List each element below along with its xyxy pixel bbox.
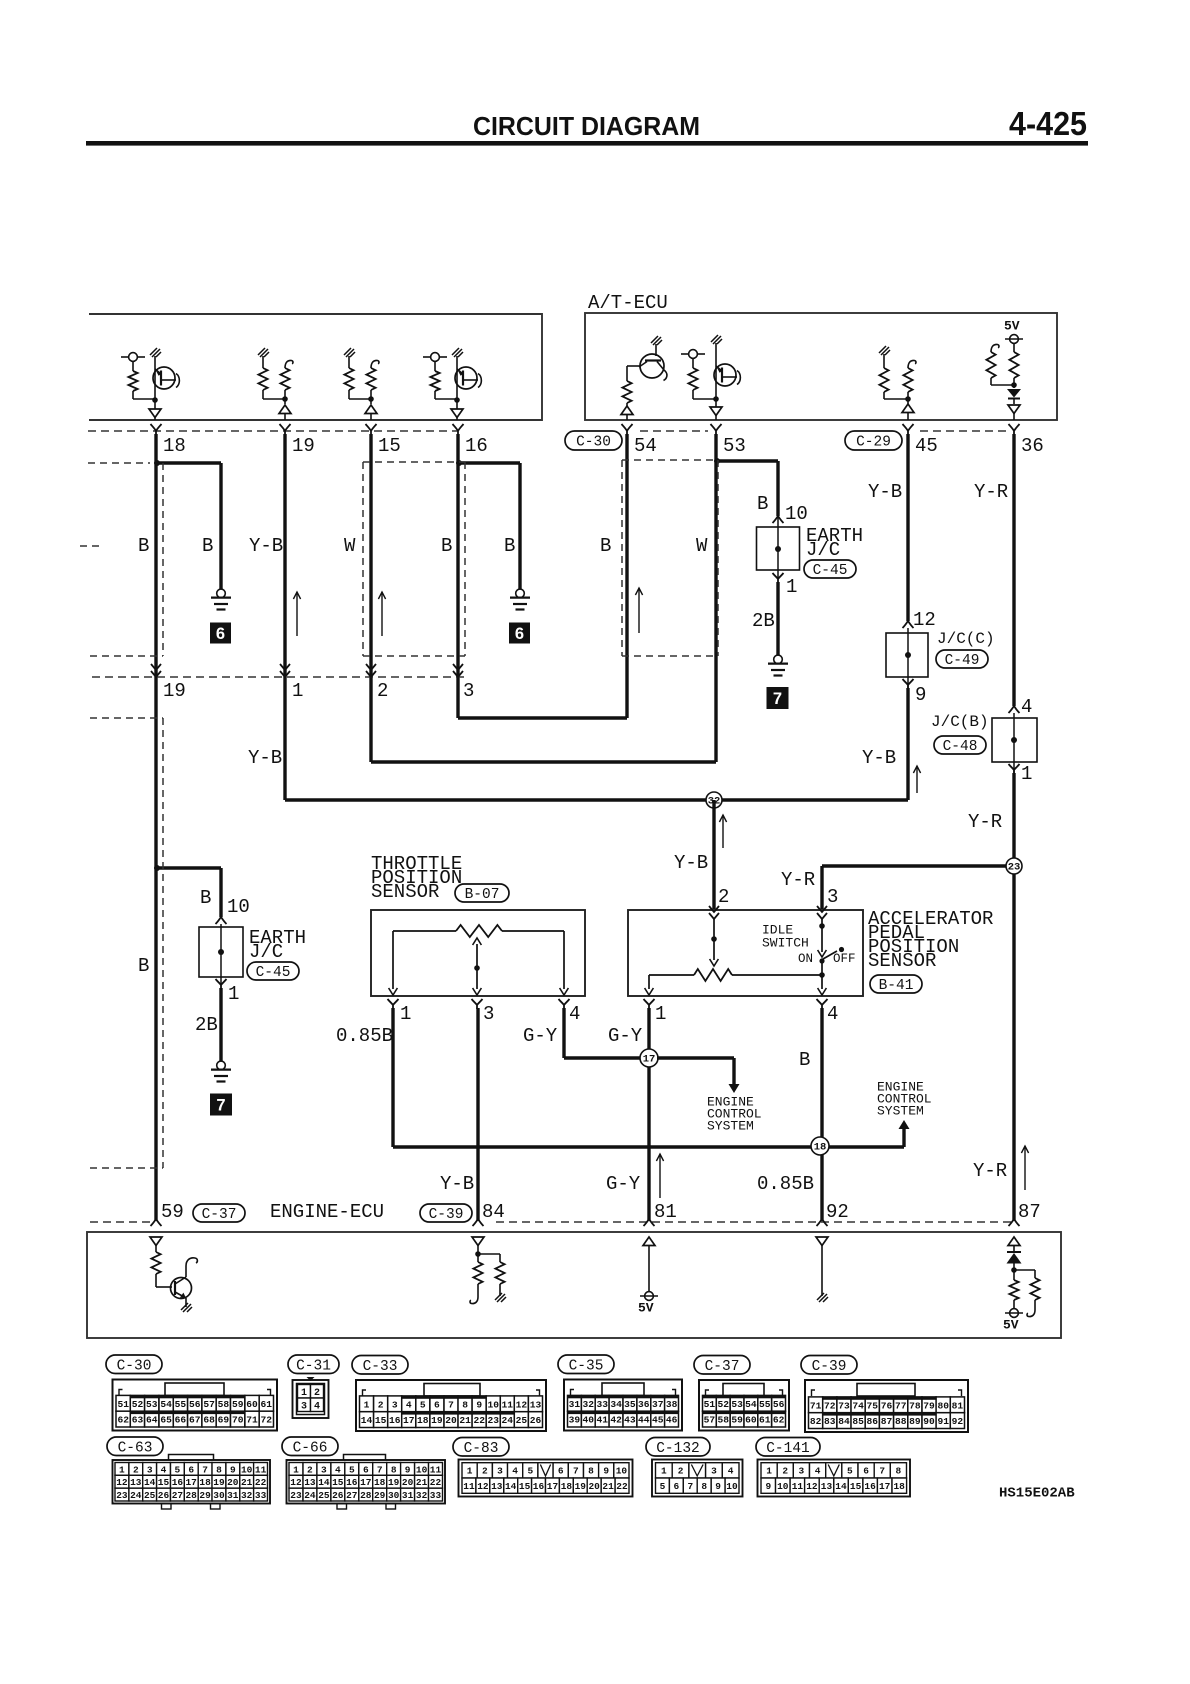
svg-text:1: 1 <box>766 1466 772 1477</box>
svg-text:39: 39 <box>569 1415 581 1426</box>
svg-text:1: 1 <box>655 1003 666 1025</box>
svg-text:92: 92 <box>952 1416 964 1427</box>
svg-text:7: 7 <box>448 1399 454 1410</box>
svg-text:Y-R: Y-R <box>781 869 815 891</box>
svg-text:86: 86 <box>867 1416 879 1427</box>
svg-text:32: 32 <box>416 1490 428 1501</box>
svg-text:G-Y: G-Y <box>606 1173 641 1195</box>
wire B pin18 to pin59 (left vertical) <box>154 434 157 1221</box>
svg-text:12: 12 <box>806 1481 818 1492</box>
svg-text:Y-R: Y-R <box>974 481 1008 503</box>
svg-text:42: 42 <box>610 1415 622 1426</box>
connector pinout C-66: pin grid <box>289 1463 443 1502</box>
idle switch contacts <box>818 919 845 989</box>
svg-text:8: 8 <box>896 1466 902 1477</box>
accel sensor entry chevrons pin 3 <box>817 906 827 919</box>
svg-text:HS15E02AB: HS15E02AB <box>999 1485 1075 1501</box>
svg-text:38: 38 <box>666 1399 678 1410</box>
svg-text:15: 15 <box>850 1481 862 1492</box>
connector pinout C-35: pin grid <box>568 1395 679 1427</box>
TPS pin 3 exit arrowhead <box>473 988 482 995</box>
svg-text:13: 13 <box>530 1399 542 1410</box>
svg-text:B-41: B-41 <box>879 978 914 994</box>
svg-text:2B: 2B <box>195 1014 218 1036</box>
svg-text:14: 14 <box>361 1415 373 1426</box>
svg-text:C-30: C-30 <box>576 435 611 451</box>
engine-ECU pin 81 cell: input triangle <box>643 1237 655 1246</box>
svg-text:2: 2 <box>377 680 388 702</box>
svg-text:21: 21 <box>602 1481 614 1492</box>
engine-ECU pin 92 cell: input triangle <box>816 1237 828 1246</box>
direction arrow on Y-B to pin 2 <box>722 815 724 848</box>
engine-ECU bottom box <box>87 1232 1061 1338</box>
svg-text:7: 7 <box>687 1481 693 1492</box>
svg-text:33: 33 <box>596 1399 608 1410</box>
svg-text:16: 16 <box>389 1415 401 1426</box>
svg-text:4: 4 <box>569 1003 580 1025</box>
svg-text:78: 78 <box>909 1400 921 1411</box>
svg-text:Y-R: Y-R <box>968 811 1002 833</box>
engine-ECU pin 87 cell: input triangle <box>1008 1237 1020 1246</box>
svg-text:18: 18 <box>417 1415 429 1426</box>
svg-text:18: 18 <box>199 1477 211 1488</box>
ECU output cell pin 16: transistor <box>452 348 481 403</box>
connector pinout C-30: pin grid <box>116 1395 274 1427</box>
svg-text:61: 61 <box>759 1415 771 1426</box>
pin fork 15 at connector row <box>366 424 377 436</box>
svg-text:10: 10 <box>241 1464 253 1475</box>
svg-text:8: 8 <box>391 1464 397 1475</box>
svg-text:19: 19 <box>575 1481 587 1492</box>
svg-text:52: 52 <box>132 1399 144 1410</box>
svg-text:20: 20 <box>588 1481 600 1492</box>
svg-text:15: 15 <box>519 1481 531 1492</box>
svg-text:27: 27 <box>172 1490 184 1501</box>
connector line C-30/C-29 (dashed) <box>88 430 458 432</box>
pin fork 19 at connector row <box>280 424 291 436</box>
svg-text:2: 2 <box>307 1464 313 1475</box>
svg-text:22: 22 <box>473 1415 485 1426</box>
svg-text:72: 72 <box>261 1415 273 1426</box>
svg-text:B-07: B-07 <box>465 887 500 903</box>
svg-text:55: 55 <box>175 1399 187 1410</box>
pin fork 92 at engine-ECU row <box>817 1219 828 1226</box>
svg-text:85: 85 <box>852 1416 864 1427</box>
connector label C-29 <box>845 431 902 450</box>
ECU input cell pin 15: input triangle <box>365 405 377 414</box>
svg-text:21: 21 <box>241 1477 253 1488</box>
svg-text:10: 10 <box>227 896 250 918</box>
svg-text:61: 61 <box>261 1399 273 1410</box>
svg-text:32: 32 <box>241 1490 253 1501</box>
svg-text:9: 9 <box>476 1399 482 1410</box>
svg-text:23: 23 <box>487 1415 499 1426</box>
svg-text:C-141: C-141 <box>766 1441 810 1457</box>
wire W pin15 to pin2 <box>369 434 372 762</box>
pin fork 16 at connector row <box>453 424 464 436</box>
A/T-ECU cell pin 36: output triangle <box>1008 405 1020 414</box>
svg-text:0.85B: 0.85B <box>757 1173 814 1195</box>
fork out of earth J/C pin 1 <box>773 573 784 583</box>
svg-text:2: 2 <box>718 886 729 908</box>
svg-text:28: 28 <box>185 1490 197 1501</box>
direction arrow on Y-B wire (J/C C) <box>916 766 918 793</box>
wire Y-R A/T pin36 down to J/C(B) <box>1012 434 1015 706</box>
svg-text:22: 22 <box>616 1481 628 1492</box>
svg-text:7: 7 <box>773 690 782 708</box>
svg-text:10: 10 <box>487 1399 499 1410</box>
svg-text:23: 23 <box>290 1490 302 1501</box>
dashed harness line at pins 19/1/2/3 <box>92 676 468 678</box>
svg-text:12: 12 <box>516 1399 528 1410</box>
ECU output cell pin 18: pull-up resistor <box>121 353 155 399</box>
svg-text:SENSOR: SENSOR <box>868 950 936 972</box>
svg-text:10: 10 <box>616 1466 628 1477</box>
fork into J/C(C) pin 12 <box>903 621 914 628</box>
connector label C-45 (upper) <box>804 560 856 578</box>
svg-text:58: 58 <box>717 1415 729 1426</box>
svg-text:80: 80 <box>937 1400 949 1411</box>
connector pinout C-132: housing <box>652 1460 743 1497</box>
engine-ECU pin 87 cell: resistors and 5V <box>1005 1270 1040 1317</box>
svg-text:27: 27 <box>346 1490 358 1501</box>
svg-text:3: 3 <box>301 1402 307 1413</box>
svg-text:92: 92 <box>826 1201 849 1223</box>
svg-text:65: 65 <box>160 1415 172 1426</box>
ECU input cell pin 19: input triangle <box>279 405 291 414</box>
svg-text:Y-B: Y-B <box>248 747 282 769</box>
svg-text:2: 2 <box>782 1466 788 1477</box>
svg-text:41: 41 <box>596 1415 608 1426</box>
direction arrow on wire pin54 <box>638 588 640 633</box>
ground symbol 7 (upper) <box>774 655 783 664</box>
connector pinout C-141: label <box>756 1438 820 1457</box>
svg-text:C-35: C-35 <box>569 1359 604 1375</box>
connector pinout C-141: pin grid <box>761 1463 907 1494</box>
connector pinout C-63: bottom tabs <box>162 1504 172 1510</box>
svg-text:24: 24 <box>502 1415 514 1426</box>
svg-text:4: 4 <box>335 1464 341 1475</box>
engine-ECU pin 87 cell: clamp diode <box>1007 1246 1022 1281</box>
svg-text:45: 45 <box>915 435 938 457</box>
svg-text:15: 15 <box>158 1477 170 1488</box>
svg-text:74: 74 <box>852 1400 864 1411</box>
svg-text:23: 23 <box>1008 861 1021 873</box>
svg-text:45: 45 <box>652 1415 664 1426</box>
svg-text:57: 57 <box>203 1399 215 1410</box>
wire G-Y from TPS pin 4 <box>562 1008 565 1058</box>
wire 2B to ground 7 (upper) <box>776 582 779 655</box>
svg-text:ENGINE-ECU: ENGINE-ECU <box>270 1201 384 1223</box>
svg-text:Y-B: Y-B <box>440 1173 474 1195</box>
svg-text:C-30: C-30 <box>117 1359 152 1375</box>
svg-text:9: 9 <box>405 1464 411 1475</box>
svg-text:15: 15 <box>378 435 401 457</box>
connector pinout C-31: label <box>288 1355 339 1374</box>
earth ground symbol 6 (right) <box>516 589 525 598</box>
svg-text:19: 19 <box>292 435 315 457</box>
wire Y-R down to accel sensor pin 3 <box>820 866 823 909</box>
svg-text:59: 59 <box>731 1415 743 1426</box>
svg-text:4: 4 <box>827 1003 838 1025</box>
connector pinout C-66: label <box>282 1437 338 1456</box>
svg-text:C-37: C-37 <box>705 1359 740 1375</box>
svg-text:8: 8 <box>216 1464 222 1475</box>
svg-text:4: 4 <box>512 1466 518 1477</box>
connector pinout C-66: top rail <box>344 1455 386 1461</box>
wire Y-R from J/C(B) down to pin 87 <box>1012 773 1015 1221</box>
svg-text:20: 20 <box>227 1477 239 1488</box>
wire W pin53 with branch to earth J/C <box>716 459 778 462</box>
svg-text:Y-B: Y-B <box>862 747 896 769</box>
wire 0.85B from TPS pin 1 <box>391 1008 394 1147</box>
J/C (B) junction box C-48 <box>992 713 1037 775</box>
svg-text:B: B <box>441 535 452 557</box>
svg-text:3: 3 <box>392 1399 398 1410</box>
connector pinout C-35: housing <box>564 1380 682 1431</box>
svg-text:B: B <box>504 535 515 557</box>
svg-text:81: 81 <box>952 1400 964 1411</box>
svg-text:16: 16 <box>172 1477 184 1488</box>
fork out of lower earth J/C pin 1 <box>216 979 227 989</box>
A/T-ECU cell pin 36: 5V source and resistors <box>986 335 1023 388</box>
svg-text:SENSOR: SENSOR <box>371 881 439 903</box>
svg-text:B: B <box>202 535 213 557</box>
svg-text:4: 4 <box>161 1464 167 1475</box>
svg-text:60: 60 <box>745 1415 757 1426</box>
svg-text:J/C: J/C <box>249 941 283 963</box>
svg-text:33: 33 <box>430 1490 442 1501</box>
junction circle 17 <box>640 1049 658 1067</box>
engine-ECU pin 84 cell: input triangle <box>472 1237 484 1246</box>
svg-text:11: 11 <box>463 1481 475 1492</box>
svg-text:13: 13 <box>130 1477 142 1488</box>
svg-text:34: 34 <box>610 1399 622 1410</box>
svg-text:Y-B: Y-B <box>249 535 283 557</box>
svg-text:2B: 2B <box>752 610 775 632</box>
svg-text:54: 54 <box>745 1399 757 1410</box>
svg-text:84: 84 <box>838 1416 850 1427</box>
engine-ECU pin 81 cell: 5V supply <box>640 1246 658 1301</box>
svg-text:88: 88 <box>895 1416 907 1427</box>
svg-text:J/C(B): J/C(B) <box>931 713 989 731</box>
accel pin 1 exit arrowhead <box>645 988 654 995</box>
connector pinout C-66: bottom tabs <box>337 1504 347 1510</box>
svg-text:18: 18 <box>893 1481 905 1492</box>
svg-text:3: 3 <box>799 1466 805 1477</box>
svg-text:58: 58 <box>218 1399 230 1410</box>
svg-text:10: 10 <box>416 1464 428 1475</box>
throttle position sensor box <box>371 910 585 996</box>
svg-text:73: 73 <box>838 1400 850 1411</box>
svg-text:6: 6 <box>216 625 225 643</box>
engine-ECU pin 59 cell: resistor <box>151 1246 172 1288</box>
svg-text:4: 4 <box>815 1466 821 1477</box>
connector pinout C-39: housing <box>805 1380 968 1432</box>
engine-ECU pin 59 cell: transistor <box>171 1258 198 1312</box>
svg-text:9: 9 <box>915 684 926 706</box>
svg-text:G-Y: G-Y <box>523 1025 558 1047</box>
svg-text:53: 53 <box>731 1399 743 1410</box>
fork into lower earth J/C pin 10 <box>216 917 227 924</box>
svg-text:76: 76 <box>881 1400 893 1411</box>
connector pinout C-31: housing <box>293 1377 329 1418</box>
svg-text:9: 9 <box>230 1464 236 1475</box>
connector pinout C-35: label <box>558 1355 614 1374</box>
pin fork 87 at engine-ECU row <box>1009 1219 1020 1226</box>
svg-text:14: 14 <box>505 1481 517 1492</box>
svg-text:43: 43 <box>624 1415 636 1426</box>
svg-text:44: 44 <box>638 1415 650 1426</box>
svg-text:3: 3 <box>463 680 474 702</box>
dashed harness box around pins 15/16 <box>363 462 465 656</box>
A/T-ECU cell pin 54: base resistor <box>622 366 631 407</box>
fork out of J/C(C) pin 9 <box>903 679 914 689</box>
ECU output cell pin 18: output triangle <box>154 400 156 409</box>
svg-text:29: 29 <box>199 1490 211 1501</box>
svg-text:2: 2 <box>133 1464 139 1475</box>
wire Y-B from TPS pin 3 to pin 84 <box>476 1008 479 1221</box>
connector label C-49 <box>936 650 988 668</box>
svg-text:11: 11 <box>792 1481 804 1492</box>
engine-ECU pin 84 cell: load resistors <box>470 1246 506 1304</box>
svg-text:5V: 5V <box>1003 1318 1019 1333</box>
svg-text:C-39: C-39 <box>812 1359 847 1375</box>
svg-text:C-132: C-132 <box>656 1441 700 1457</box>
svg-text:5: 5 <box>847 1466 853 1477</box>
direction arrow on wire pin15/2 <box>381 592 383 636</box>
svg-text:62: 62 <box>117 1415 129 1426</box>
svg-text:26: 26 <box>530 1415 542 1426</box>
svg-text:36: 36 <box>1021 435 1044 457</box>
connector label C-48 <box>934 736 986 754</box>
connector label C-39 <box>420 1204 472 1222</box>
svg-text:3: 3 <box>711 1466 717 1477</box>
svg-text:5: 5 <box>660 1481 666 1492</box>
earth ground symbol 6 (left) <box>217 589 226 598</box>
accel sensor entry chevrons pin 2 <box>709 906 719 919</box>
svg-text:5V: 5V <box>638 1301 654 1316</box>
svg-text:B: B <box>799 1049 810 1071</box>
connector label C-30 <box>565 431 622 450</box>
connector pinout C-39: label <box>801 1356 857 1375</box>
engine control system branch (left) <box>657 1056 734 1059</box>
connector pinout C-30: label <box>106 1355 162 1374</box>
earth number box 6 (left) <box>210 623 231 644</box>
connector pinout C-63: label <box>107 1437 163 1456</box>
wire Y-B horizontal run pin1 to J/C(C) <box>285 798 908 801</box>
accel wiper from pin 2 <box>710 919 719 966</box>
svg-text:C-45: C-45 <box>813 563 848 579</box>
svg-text:1: 1 <box>292 680 303 702</box>
ground symbol 7 (lower) <box>217 1061 226 1070</box>
wire 2B to ground 7 (lower) <box>219 988 222 1061</box>
svg-text:60: 60 <box>246 1399 258 1410</box>
svg-text:SYSTEM: SYSTEM <box>877 1104 924 1119</box>
svg-text:15: 15 <box>375 1415 387 1426</box>
A/T-ECU cell pin 36: clamp diode <box>1007 389 1021 404</box>
svg-text:4: 4 <box>728 1466 734 1477</box>
svg-text:56: 56 <box>773 1399 785 1410</box>
svg-text:W: W <box>696 535 708 557</box>
svg-text:1: 1 <box>1021 763 1032 785</box>
svg-text:66: 66 <box>175 1415 187 1426</box>
svg-text:17: 17 <box>185 1477 197 1488</box>
svg-text:67: 67 <box>189 1415 201 1426</box>
svg-text:53: 53 <box>723 435 746 457</box>
svg-text:83: 83 <box>824 1416 836 1427</box>
A/T-ECU cell pin 53: output triangle <box>715 400 717 407</box>
connector pinout C-63: housing <box>113 1460 271 1504</box>
svg-text:B: B <box>757 493 768 515</box>
svg-text:C-48: C-48 <box>943 739 978 755</box>
ECU output cell pin 16: output triangle <box>456 400 458 409</box>
connector pinout C-63: pin grid <box>115 1463 268 1502</box>
engine-ECU pin 59 cell: input triangle <box>150 1237 162 1246</box>
svg-text:C-83: C-83 <box>464 1441 499 1457</box>
svg-text:81: 81 <box>654 1201 677 1223</box>
svg-text:33: 33 <box>255 1490 267 1501</box>
svg-text:G-Y: G-Y <box>608 1025 643 1047</box>
svg-text:C-33: C-33 <box>363 1359 398 1375</box>
svg-text:56: 56 <box>189 1399 201 1410</box>
svg-text:7: 7 <box>202 1464 208 1475</box>
svg-text:72: 72 <box>824 1400 836 1411</box>
TPS fork pin 3 <box>472 999 483 1009</box>
svg-text:8: 8 <box>701 1481 707 1492</box>
svg-text:C-63: C-63 <box>118 1441 153 1457</box>
A/T-ECU cell pin 53: pull-up resistor <box>681 350 716 399</box>
svg-text:4-425: 4-425 <box>1009 105 1087 142</box>
svg-text:84: 84 <box>482 1201 505 1223</box>
wire branch to earth 6 (pin18) <box>156 461 221 464</box>
svg-text:7: 7 <box>573 1466 579 1477</box>
svg-text:11: 11 <box>502 1399 514 1410</box>
svg-text:22: 22 <box>255 1477 267 1488</box>
wire 0.85B horizontal run to junction 18 <box>393 1145 904 1148</box>
svg-text:63: 63 <box>132 1415 144 1426</box>
svg-text:59: 59 <box>161 1201 184 1223</box>
svg-text:1: 1 <box>293 1464 299 1475</box>
svg-text:OFF: OFF <box>833 952 856 966</box>
svg-text:32: 32 <box>583 1399 595 1410</box>
TPS fork pin 1 <box>388 999 399 1009</box>
dashed stub left edge y546 <box>80 545 104 547</box>
svg-text:6: 6 <box>188 1464 194 1475</box>
A/T-ECU cell pin 53: transistor <box>711 335 740 402</box>
svg-text:1: 1 <box>467 1466 473 1477</box>
connector pinout C-39: pin grid <box>809 1397 965 1429</box>
svg-text:20: 20 <box>445 1415 457 1426</box>
svg-text:17: 17 <box>547 1481 559 1492</box>
svg-text:C-37: C-37 <box>202 1207 237 1223</box>
svg-text:C-49: C-49 <box>945 653 980 669</box>
svg-text:5: 5 <box>420 1399 426 1410</box>
svg-text:15: 15 <box>332 1477 344 1488</box>
connector pinout C-33: pin grid <box>360 1396 543 1428</box>
svg-text:Y-R: Y-R <box>973 1160 1007 1182</box>
svg-text:9: 9 <box>715 1481 721 1492</box>
svg-text:55: 55 <box>759 1399 771 1410</box>
svg-text:19: 19 <box>163 680 186 702</box>
connector label C-37 <box>193 1204 245 1222</box>
fork into earth J/C pin 10 <box>773 516 784 523</box>
svg-text:59: 59 <box>232 1399 244 1410</box>
svg-text:31: 31 <box>227 1490 239 1501</box>
svg-text:21: 21 <box>416 1477 428 1488</box>
svg-text:16: 16 <box>533 1481 545 1492</box>
TPS potentiometer track <box>393 925 564 989</box>
